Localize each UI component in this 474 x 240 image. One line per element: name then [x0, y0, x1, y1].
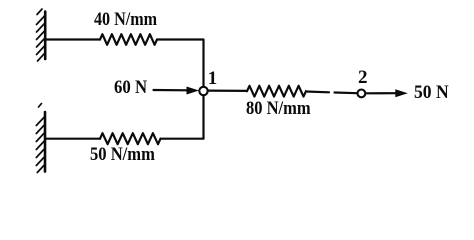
node label 1	[208, 69, 218, 88]
wire spring k3 to node 2	[306, 90, 329, 93]
label 40 N/mm	[94, 10, 157, 29]
wire wall to spring k1	[46, 38, 100, 40]
wall support bottom	[36, 104, 45, 173]
label 50 N/mm	[90, 145, 155, 164]
node 1	[199, 87, 207, 95]
node label 2	[358, 68, 368, 87]
force arrow 50 N	[365, 89, 407, 97]
spring k1 40 N/mm	[100, 34, 157, 45]
label 60 N	[114, 78, 147, 97]
node 2	[358, 90, 366, 98]
spring k3 80 N/mm	[247, 86, 306, 97]
wall support top	[37, 9, 46, 61]
wire node 1 to spring k3	[208, 89, 247, 92]
force arrow 60 N	[154, 87, 200, 95]
wire spring k2 to corner	[161, 96, 204, 139]
wire wall to spring k2	[46, 138, 100, 140]
label 80 N/mm	[246, 99, 311, 118]
spring k2 50 N/mm	[100, 133, 161, 144]
wire spring k1 to corner	[157, 40, 204, 87]
label 50 N	[414, 83, 449, 102]
